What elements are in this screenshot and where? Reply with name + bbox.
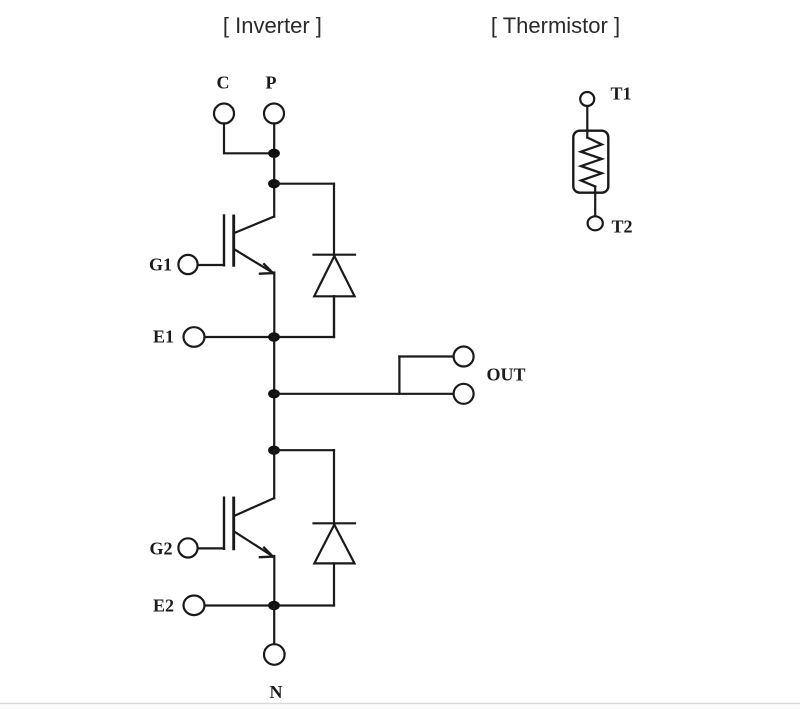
wire emitter Q1 vertical: [273, 273, 275, 338]
wire OUT lower: [274, 393, 454, 395]
terminal N: [264, 644, 285, 665]
wire E2 lead: [205, 604, 334, 606]
junction dot E2: [268, 601, 280, 610]
wire gate G2 lead: [198, 547, 224, 549]
svg-text:N: N: [270, 682, 283, 702]
wire collector Q2 vertical: [273, 450, 275, 498]
svg-text:G1: G1: [149, 255, 172, 275]
wire T2 lead: [594, 187, 596, 217]
wire diode D1 anode corner up: [333, 296, 335, 337]
svg-text:P: P: [266, 73, 277, 93]
svg-text:[ Thermistor ]: [ Thermistor ]: [491, 13, 620, 38]
svg-text:E1: E1: [153, 327, 174, 347]
wire diode D2 cathode vertical: [333, 450, 335, 523]
wire diode D1 anode vertical: [333, 296, 335, 337]
svg-text:G2: G2: [149, 538, 172, 558]
wire C lead: [224, 124, 274, 154]
terminal G2: [178, 538, 197, 557]
wire diode D1 cathode vertical: [333, 184, 335, 255]
wire OUT upper: [399, 355, 453, 357]
terminal OUT upper: [454, 347, 474, 367]
wire emitter Q2 vertical: [273, 556, 275, 606]
junction dot C-P: [268, 149, 280, 158]
svg-text:E2: E2: [153, 596, 174, 616]
terminal T1: [580, 92, 594, 106]
wire OUT branch vertical: [398, 357, 400, 394]
diode D2: [314, 523, 356, 563]
terminal G1: [178, 255, 197, 274]
svg-text:[ Inverter ]: [ Inverter ]: [223, 13, 322, 38]
wire N lead: [273, 606, 275, 645]
junction dot collector-diode: [268, 179, 280, 188]
svg-text:T2: T2: [611, 216, 632, 236]
transistor Q1 (IGBT): [224, 216, 274, 274]
terminal OUT lower: [454, 384, 474, 404]
svg-text:C: C: [217, 73, 230, 93]
resistor zigzag RT1: [581, 138, 602, 187]
wire gate G1 lead: [198, 264, 224, 266]
junction dot collector-diode 2: [268, 446, 280, 455]
junction dot E1: [268, 332, 280, 341]
transistor Q2 (IGBT): [224, 498, 274, 558]
wire T1 lead: [586, 106, 588, 138]
wire to diode D1 top: [274, 183, 334, 185]
terminal C: [214, 104, 234, 124]
wire to diode D2 top: [274, 449, 334, 451]
wire diode D2 anode vertical: [333, 563, 335, 605]
thermistor RT1 body: [573, 131, 608, 193]
wire midpoint bus: [273, 337, 275, 450]
terminal E1: [184, 327, 205, 347]
svg-text:OUT: OUT: [486, 365, 525, 385]
bottom divider line: [0, 703, 800, 705]
junction dot OUT: [268, 389, 280, 398]
svg-text:T1: T1: [610, 84, 631, 104]
terminal E2: [184, 596, 205, 616]
diode D1: [314, 255, 356, 297]
wire P bus vertical: [273, 124, 275, 217]
terminal T2: [588, 216, 603, 230]
wire E1 lead: [205, 336, 334, 338]
terminal P: [264, 104, 284, 124]
